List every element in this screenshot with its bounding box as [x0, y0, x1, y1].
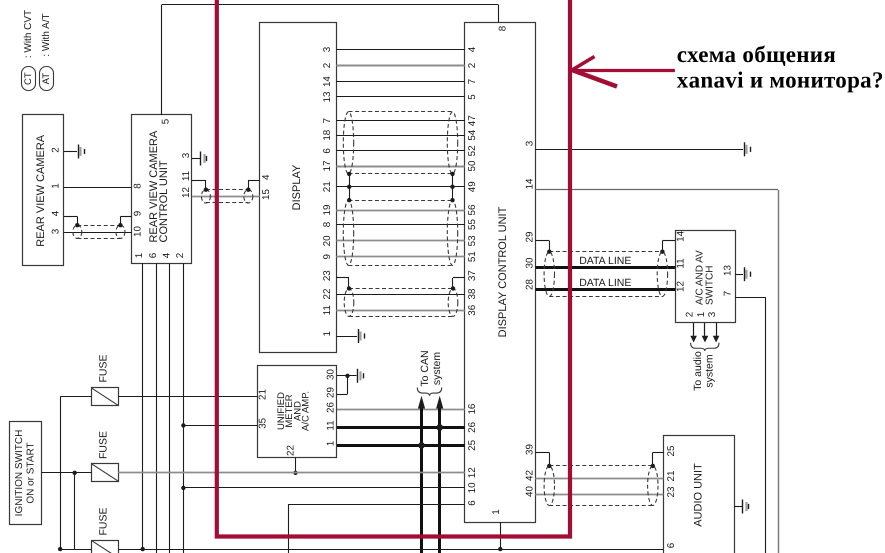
- svg-text:9: 9: [132, 211, 143, 216]
- svg-text:3: 3: [51, 228, 62, 234]
- svg-text:8: 8: [132, 183, 143, 189]
- svg-text:1: 1: [51, 183, 62, 188]
- svg-text:4: 4: [161, 252, 172, 258]
- svg-text:3: 3: [707, 311, 718, 317]
- svg-text:2: 2: [685, 312, 696, 317]
- svg-text:: With CVT: : With CVT: [23, 10, 34, 58]
- svg-text:2: 2: [467, 63, 478, 68]
- svg-text:29: 29: [524, 232, 535, 243]
- svg-text:8: 8: [322, 221, 333, 227]
- svg-text:25: 25: [666, 445, 677, 456]
- svg-text:To audio: To audio: [692, 351, 704, 391]
- svg-text:26: 26: [467, 421, 478, 432]
- svg-text:6: 6: [148, 252, 159, 258]
- svg-text:11: 11: [322, 305, 333, 315]
- svg-text:38: 38: [467, 288, 478, 299]
- svg-text:37: 37: [467, 270, 478, 281]
- svg-text:55: 55: [467, 219, 478, 230]
- svg-text:25: 25: [467, 439, 478, 450]
- svg-text:: With A/T: : With A/T: [41, 13, 52, 56]
- svg-text:6: 6: [666, 542, 677, 548]
- svg-text:AUDIO UNIT: AUDIO UNIT: [693, 463, 705, 527]
- svg-text:xanavi и монитора?: xanavi и монитора?: [677, 68, 884, 93]
- svg-text:22: 22: [322, 289, 333, 300]
- svg-text:1: 1: [325, 441, 336, 446]
- svg-text:13: 13: [322, 91, 333, 102]
- svg-text:23: 23: [666, 486, 677, 497]
- svg-text:DISPLAY CONTROL UNIT: DISPLAY CONTROL UNIT: [497, 206, 509, 337]
- svg-text:DISPLAY: DISPLAY: [291, 164, 303, 210]
- svg-text:схема общения: схема общения: [677, 42, 836, 67]
- svg-text:47: 47: [467, 115, 478, 126]
- svg-text:11: 11: [675, 258, 686, 268]
- svg-text:6: 6: [467, 500, 478, 506]
- svg-text:SWITCH: SWITCH: [704, 266, 715, 305]
- svg-text:12: 12: [467, 467, 478, 478]
- svg-text:8: 8: [497, 25, 508, 31]
- svg-text:11: 11: [325, 420, 336, 430]
- svg-text:14: 14: [524, 178, 535, 189]
- svg-text:23: 23: [322, 270, 333, 281]
- svg-text:2: 2: [322, 63, 333, 68]
- svg-text:FUSE: FUSE: [98, 431, 110, 459]
- svg-text:CONTROL UNIT: CONTROL UNIT: [158, 160, 170, 242]
- svg-text:3: 3: [322, 46, 333, 52]
- svg-text:DATA LINE: DATA LINE: [579, 255, 631, 267]
- svg-text:10: 10: [467, 482, 478, 493]
- svg-text:3: 3: [181, 152, 192, 158]
- svg-text:20: 20: [322, 235, 333, 246]
- svg-text:49: 49: [467, 181, 478, 192]
- svg-text:53: 53: [467, 235, 478, 246]
- svg-text:REAR VIEW CAMERA: REAR VIEW CAMERA: [35, 134, 47, 247]
- svg-text:AT: AT: [41, 73, 52, 85]
- svg-text:36: 36: [467, 304, 478, 315]
- svg-text:28: 28: [524, 279, 535, 290]
- svg-text:29: 29: [325, 387, 336, 398]
- svg-text:4: 4: [261, 174, 272, 180]
- svg-text:13: 13: [722, 265, 733, 276]
- svg-text:19: 19: [322, 205, 333, 216]
- svg-text:1: 1: [134, 253, 145, 258]
- svg-text:14: 14: [675, 230, 686, 241]
- svg-text:CT: CT: [23, 72, 34, 85]
- svg-text:14: 14: [322, 76, 333, 87]
- svg-text:18: 18: [322, 129, 333, 140]
- svg-text:51: 51: [467, 251, 478, 262]
- svg-text:12: 12: [675, 281, 686, 292]
- svg-text:7: 7: [722, 291, 733, 296]
- svg-text:21: 21: [258, 389, 269, 400]
- svg-text:DATA LINE: DATA LINE: [579, 277, 631, 289]
- svg-text:FUSE: FUSE: [98, 507, 110, 535]
- svg-text:To CAN: To CAN: [419, 350, 431, 386]
- svg-text:IGNITION SWITCH: IGNITION SWITCH: [14, 430, 25, 517]
- svg-text:56: 56: [467, 204, 478, 215]
- svg-text:7: 7: [467, 79, 478, 84]
- svg-text:16: 16: [467, 403, 478, 414]
- svg-text:1: 1: [322, 331, 333, 336]
- svg-text:42: 42: [524, 470, 535, 481]
- svg-text:54: 54: [467, 129, 478, 140]
- svg-text:22: 22: [286, 445, 297, 456]
- svg-text:4: 4: [467, 46, 478, 52]
- svg-text:26: 26: [325, 402, 336, 413]
- svg-text:52: 52: [467, 145, 478, 156]
- svg-text:15: 15: [261, 189, 272, 200]
- svg-text:ON or START: ON or START: [25, 442, 36, 503]
- svg-text:7: 7: [322, 118, 333, 123]
- svg-text:39: 39: [524, 444, 535, 455]
- svg-text:40: 40: [524, 486, 535, 497]
- svg-text:30: 30: [325, 369, 336, 380]
- svg-text:3: 3: [524, 140, 535, 146]
- svg-text:1: 1: [696, 312, 707, 317]
- svg-text:4: 4: [51, 210, 62, 216]
- svg-text:6: 6: [322, 148, 333, 154]
- svg-text:10: 10: [132, 226, 143, 237]
- svg-text:17: 17: [322, 161, 333, 172]
- svg-text:system: system: [431, 352, 443, 386]
- svg-text:FUSE: FUSE: [98, 354, 110, 382]
- svg-text:30: 30: [524, 257, 535, 268]
- svg-text:35: 35: [258, 417, 269, 428]
- svg-text:2: 2: [175, 253, 186, 258]
- svg-text:12: 12: [181, 187, 192, 198]
- svg-text:50: 50: [467, 160, 478, 171]
- svg-text:21: 21: [666, 471, 677, 482]
- svg-text:1: 1: [491, 509, 502, 514]
- svg-text:11: 11: [181, 171, 192, 181]
- svg-text:system: system: [704, 354, 716, 388]
- svg-text:2: 2: [51, 147, 62, 152]
- svg-text:5: 5: [467, 94, 478, 100]
- svg-text:21: 21: [322, 181, 333, 192]
- svg-text:9: 9: [322, 254, 333, 259]
- svg-text:A/C AMP.: A/C AMP.: [301, 391, 312, 431]
- svg-text:5: 5: [160, 118, 171, 124]
